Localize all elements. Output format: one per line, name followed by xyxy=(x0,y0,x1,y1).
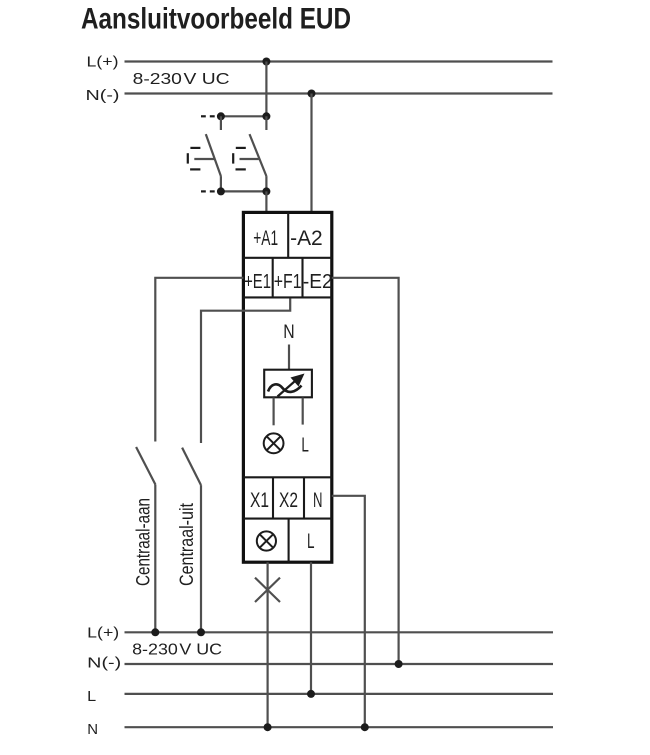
terminal X1 xyxy=(250,489,269,512)
svg-text:L: L xyxy=(307,530,315,553)
label L(+) top xyxy=(87,53,119,70)
label Centraal-aan xyxy=(134,498,155,586)
wire L to pushbutton bus xyxy=(265,62,267,117)
wire L(+) top bus xyxy=(125,60,553,62)
wire internal N to dimmer xyxy=(288,345,290,370)
terminal N xyxy=(313,489,323,512)
label N(-) top xyxy=(86,87,120,104)
svg-text:-E2: -E2 xyxy=(303,271,333,293)
terminal X2 xyxy=(279,489,298,512)
wire +F1 to Centraal-uit switch xyxy=(201,298,290,443)
wire -E2 to bottom N(-) bus xyxy=(332,278,399,664)
svg-text:N: N xyxy=(313,489,323,512)
label L(+) bottom xyxy=(87,625,119,642)
node E2-wire to N(-) xyxy=(395,660,403,668)
wire L output to bottom L bus xyxy=(310,562,312,694)
svg-text:N: N xyxy=(87,721,98,738)
wire L(+) bottom bus xyxy=(125,631,554,633)
terminal row E borders xyxy=(243,258,331,298)
label Centraal-uit xyxy=(177,502,198,586)
wire L bottom bus xyxy=(125,693,554,695)
svg-text:+A1: +A1 xyxy=(253,227,278,250)
dimmer box xyxy=(264,370,312,398)
wire N(-) bottom bus xyxy=(125,663,554,665)
svg-text:8-230 V UC: 8-230 V UC xyxy=(133,71,230,88)
internal label L xyxy=(301,435,309,457)
svg-text:X1: X1 xyxy=(250,489,269,512)
wire N to terminal -A2 xyxy=(310,94,312,213)
svg-text:X2: X2 xyxy=(279,489,298,512)
svg-text:L: L xyxy=(87,688,96,705)
node pushbutton top left xyxy=(217,112,225,120)
label L bottom cell xyxy=(307,530,315,553)
terminal -E2 xyxy=(303,271,333,293)
X mark no-connection xyxy=(255,578,280,602)
lamp symbol bottom cell xyxy=(257,531,276,550)
svg-text:+F1: +F1 xyxy=(274,271,302,293)
terminal +F1 xyxy=(274,271,302,293)
wire N(-) top bus xyxy=(125,92,553,94)
label N(-) bottom xyxy=(87,655,121,672)
svg-text:L: L xyxy=(301,435,309,457)
terminal +A1 xyxy=(253,227,278,250)
svg-text:+E1: +E1 xyxy=(244,271,271,293)
device EUD outline xyxy=(243,212,331,562)
label 8-230V UC bottom xyxy=(132,642,222,659)
svg-text:8-230 V UC: 8-230 V UC xyxy=(132,642,222,659)
node Centraal-uit to L(+) xyxy=(197,628,205,636)
wire +E1 to Centraal-aan switch xyxy=(155,278,243,442)
wire pushbutton bus to terminal +A1 xyxy=(265,191,267,212)
wire lamp output to bottom N bus xyxy=(267,562,269,727)
node pushbutton bottom right xyxy=(262,187,270,195)
svg-text:Aansluitvoorbeeld EUD: Aansluitvoorbeeld EUD xyxy=(81,3,351,36)
label L bottom xyxy=(87,688,96,705)
label 8-230V UC top xyxy=(133,71,230,88)
bottom cells divider xyxy=(288,519,290,563)
wire N bottom bus xyxy=(125,726,554,728)
wire dimmer output left xyxy=(273,398,275,426)
node pushbutton bottom left xyxy=(217,187,225,195)
svg-text:N(-): N(-) xyxy=(87,655,121,672)
pushbutton S2 actuator xyxy=(233,148,259,170)
svg-text:Centraal-uit: Centraal-uit xyxy=(177,502,198,586)
pushbutton S1 contact xyxy=(206,116,221,191)
pushbutton bottom bus xyxy=(219,190,266,192)
label N bottom xyxy=(87,721,98,738)
svg-text:-A2: -A2 xyxy=(290,227,323,250)
pushbutton S1 actuator xyxy=(188,148,215,170)
terminal -A2 xyxy=(290,227,323,250)
node N-terminal-wire to N xyxy=(361,723,369,731)
terminal row X borders xyxy=(243,477,331,518)
node lamp-wire to N xyxy=(264,723,272,731)
pushbutton top bus dashed extension xyxy=(201,115,215,117)
internal label N xyxy=(283,322,294,343)
svg-text:Centraal-aan: Centraal-aan xyxy=(134,498,155,586)
node L-output to L xyxy=(307,690,315,698)
dimmer symbol wave and arrow xyxy=(268,374,305,397)
wire terminal N to bottom N bus xyxy=(332,496,365,727)
pushbutton bottom bus dashed extension xyxy=(201,190,215,192)
switch Centraal-uit contact xyxy=(182,448,201,633)
node N-junction xyxy=(308,90,316,98)
node Centraal-aan to L(+) xyxy=(151,628,159,636)
svg-text:N(-): N(-) xyxy=(86,87,120,104)
lamp symbol internal xyxy=(264,433,284,453)
terminal row A divider xyxy=(243,212,331,257)
svg-text:L(+): L(+) xyxy=(87,53,119,70)
terminal +E1 xyxy=(244,271,271,293)
title Aansluitvoorbeeld EUD xyxy=(81,3,351,36)
pushbutton top bus xyxy=(219,115,266,117)
pushbutton S2 contact xyxy=(250,116,267,191)
wire dimmer output right xyxy=(302,398,304,425)
switch Centraal-aan contact xyxy=(136,447,155,632)
svg-text:L(+): L(+) xyxy=(87,625,119,642)
node pushbutton top right xyxy=(262,112,270,120)
node L-junction xyxy=(262,58,270,66)
svg-text:N: N xyxy=(283,322,294,343)
